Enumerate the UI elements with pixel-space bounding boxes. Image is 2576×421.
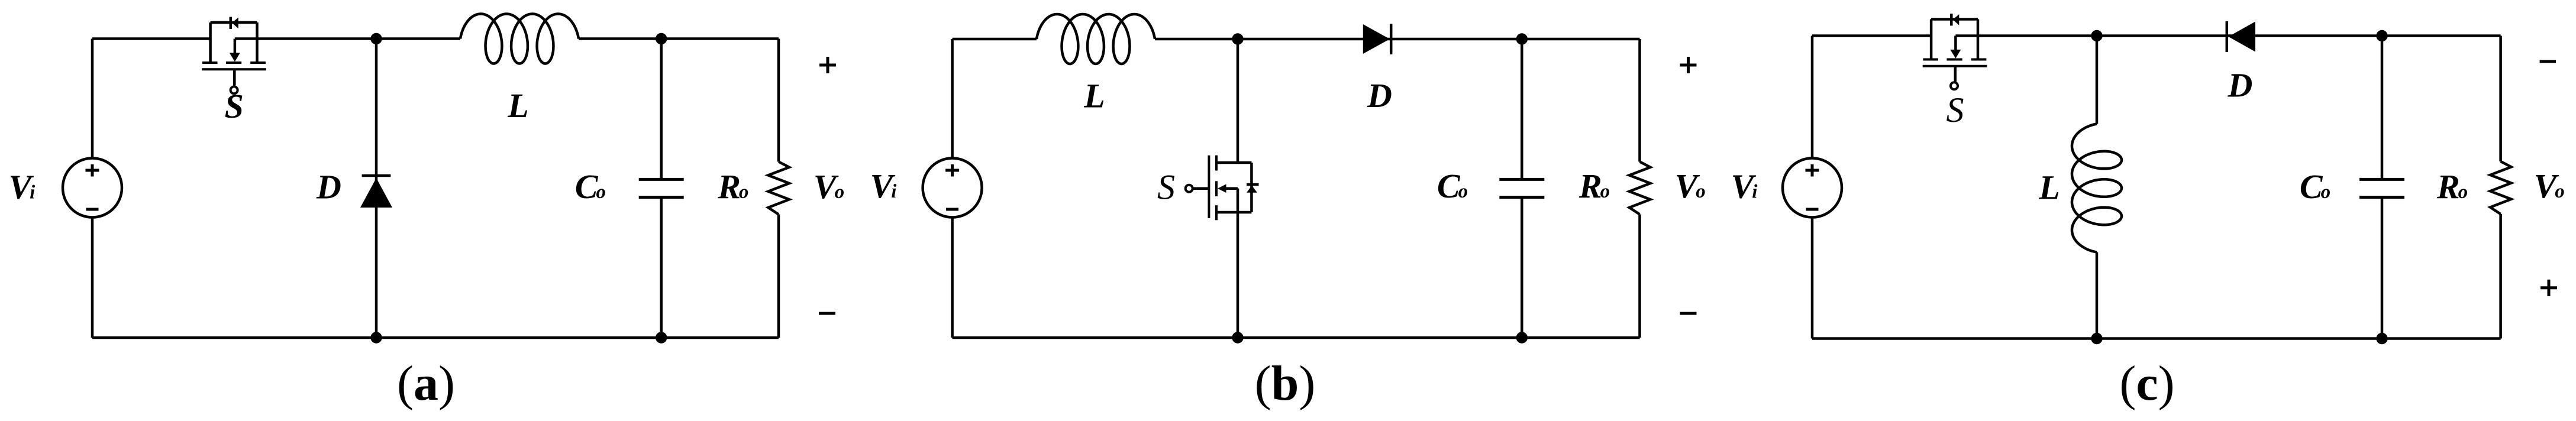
svg-text:D: D	[316, 168, 341, 206]
svg-text:L: L	[507, 86, 528, 125]
svg-text:L: L	[1083, 76, 1105, 115]
svg-text:S: S	[225, 87, 244, 125]
svg-text:D: D	[1367, 76, 1392, 115]
svg-text:S: S	[1157, 168, 1175, 207]
svg-text:S: S	[1946, 90, 1964, 129]
svg-text:(b): (b)	[1255, 356, 1316, 411]
svg-text:D: D	[2227, 66, 2252, 105]
svg-text:L: L	[2038, 168, 2059, 206]
svg-text:(a): (a)	[397, 356, 455, 411]
svg-text:(c): (c)	[2119, 356, 2174, 411]
